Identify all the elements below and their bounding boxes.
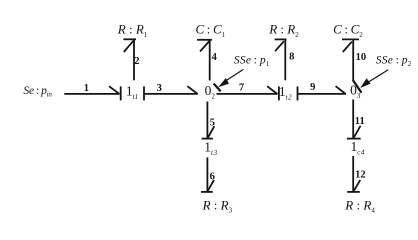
svg-text:10: 10 bbox=[356, 52, 367, 63]
svg-text:R : R2: R : R2 bbox=[268, 22, 299, 39]
svg-text:1: 1 bbox=[84, 83, 89, 94]
svg-text:4: 4 bbox=[212, 52, 218, 63]
svg-text:C : C2: C : C2 bbox=[333, 22, 363, 39]
svg-text:R : R4: R : R4 bbox=[344, 197, 375, 214]
svg-text:5: 5 bbox=[210, 118, 215, 129]
svg-text:C : C1: C : C1 bbox=[196, 22, 226, 39]
svg-text:8: 8 bbox=[289, 51, 294, 62]
svg-text:SSe : p1: SSe : p1 bbox=[234, 55, 270, 69]
svg-text:11: 11 bbox=[355, 116, 365, 127]
svg-text:9: 9 bbox=[310, 82, 315, 93]
svg-text:7: 7 bbox=[239, 83, 244, 94]
svg-text:12: 12 bbox=[355, 170, 366, 181]
svg-text:SSe : p2: SSe : p2 bbox=[376, 55, 412, 69]
svg-text:R : R3: R : R3 bbox=[202, 197, 233, 214]
svg-text:R : R1: R : R1 bbox=[117, 22, 148, 39]
svg-text:6: 6 bbox=[210, 172, 215, 183]
svg-text:3: 3 bbox=[157, 83, 162, 94]
svg-text:2: 2 bbox=[134, 56, 139, 67]
